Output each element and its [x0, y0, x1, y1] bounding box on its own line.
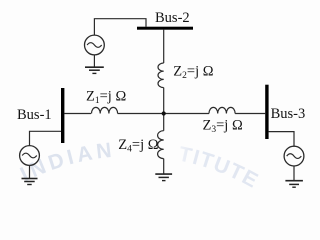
svg-text:Z3=j Ω: Z3=j Ω	[203, 118, 243, 136]
svg-text:Z4=j Ω: Z4=j Ω	[118, 137, 158, 155]
svg-text:Bus-2: Bus-2	[155, 10, 190, 26]
svg-text:Z1=j Ω: Z1=j Ω	[86, 88, 126, 106]
svg-text:Z2=j Ω: Z2=j Ω	[173, 64, 213, 82]
svg-text:Bus-3: Bus-3	[271, 106, 306, 122]
svg-text:TITUTE: TITUTE	[176, 143, 262, 194]
svg-text:Bus-1: Bus-1	[17, 107, 52, 123]
